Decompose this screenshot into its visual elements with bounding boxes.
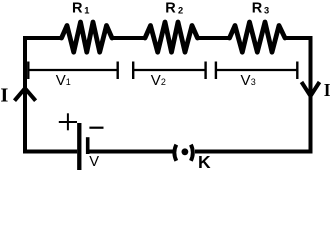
wire bottom right xyxy=(195,150,313,154)
svg-text:I: I xyxy=(324,80,331,100)
resistor R3 xyxy=(230,22,286,52)
voltmeter bracket V3 xyxy=(216,62,297,90)
svg-text:I: I xyxy=(0,84,8,106)
current arrow left (up) xyxy=(15,88,36,100)
label R2 xyxy=(165,0,183,16)
svg-text:2: 2 xyxy=(161,77,166,87)
svg-text:V: V xyxy=(89,154,99,170)
svg-text:K: K xyxy=(198,152,211,172)
svg-text:R: R xyxy=(72,0,83,16)
resistor R1 xyxy=(62,22,113,52)
svg-text:1: 1 xyxy=(66,77,71,87)
key K right paren xyxy=(191,145,193,161)
voltmeter bracket V2 xyxy=(133,62,205,90)
svg-text:V: V xyxy=(241,72,251,89)
battery minus sign xyxy=(89,127,103,129)
svg-text:R: R xyxy=(165,0,176,16)
label R1 xyxy=(72,0,89,16)
battery plate short (negative) xyxy=(86,137,90,154)
wire between R1 and R2 xyxy=(111,36,146,40)
wire bottom middle xyxy=(89,150,173,154)
label R3 xyxy=(252,0,269,16)
svg-text:V: V xyxy=(56,72,66,89)
wire bottom left xyxy=(23,150,77,154)
svg-text:V: V xyxy=(151,72,161,89)
svg-text:1: 1 xyxy=(84,6,89,16)
wire between R2 and R3 xyxy=(197,36,231,40)
resistor R2 xyxy=(145,22,198,52)
key K contact dot xyxy=(182,148,189,155)
svg-text:3: 3 xyxy=(264,6,269,16)
battery plate long (positive) xyxy=(77,123,81,170)
battery plus sign xyxy=(59,113,77,130)
svg-text:3: 3 xyxy=(251,77,256,87)
svg-text:2: 2 xyxy=(178,6,183,16)
wire top left corner xyxy=(25,38,63,154)
current arrow right (down) xyxy=(302,82,320,96)
wire top right corner xyxy=(284,38,311,154)
voltmeter bracket V1 xyxy=(28,62,117,90)
svg-text:R: R xyxy=(252,0,263,16)
key K left paren xyxy=(174,145,176,161)
